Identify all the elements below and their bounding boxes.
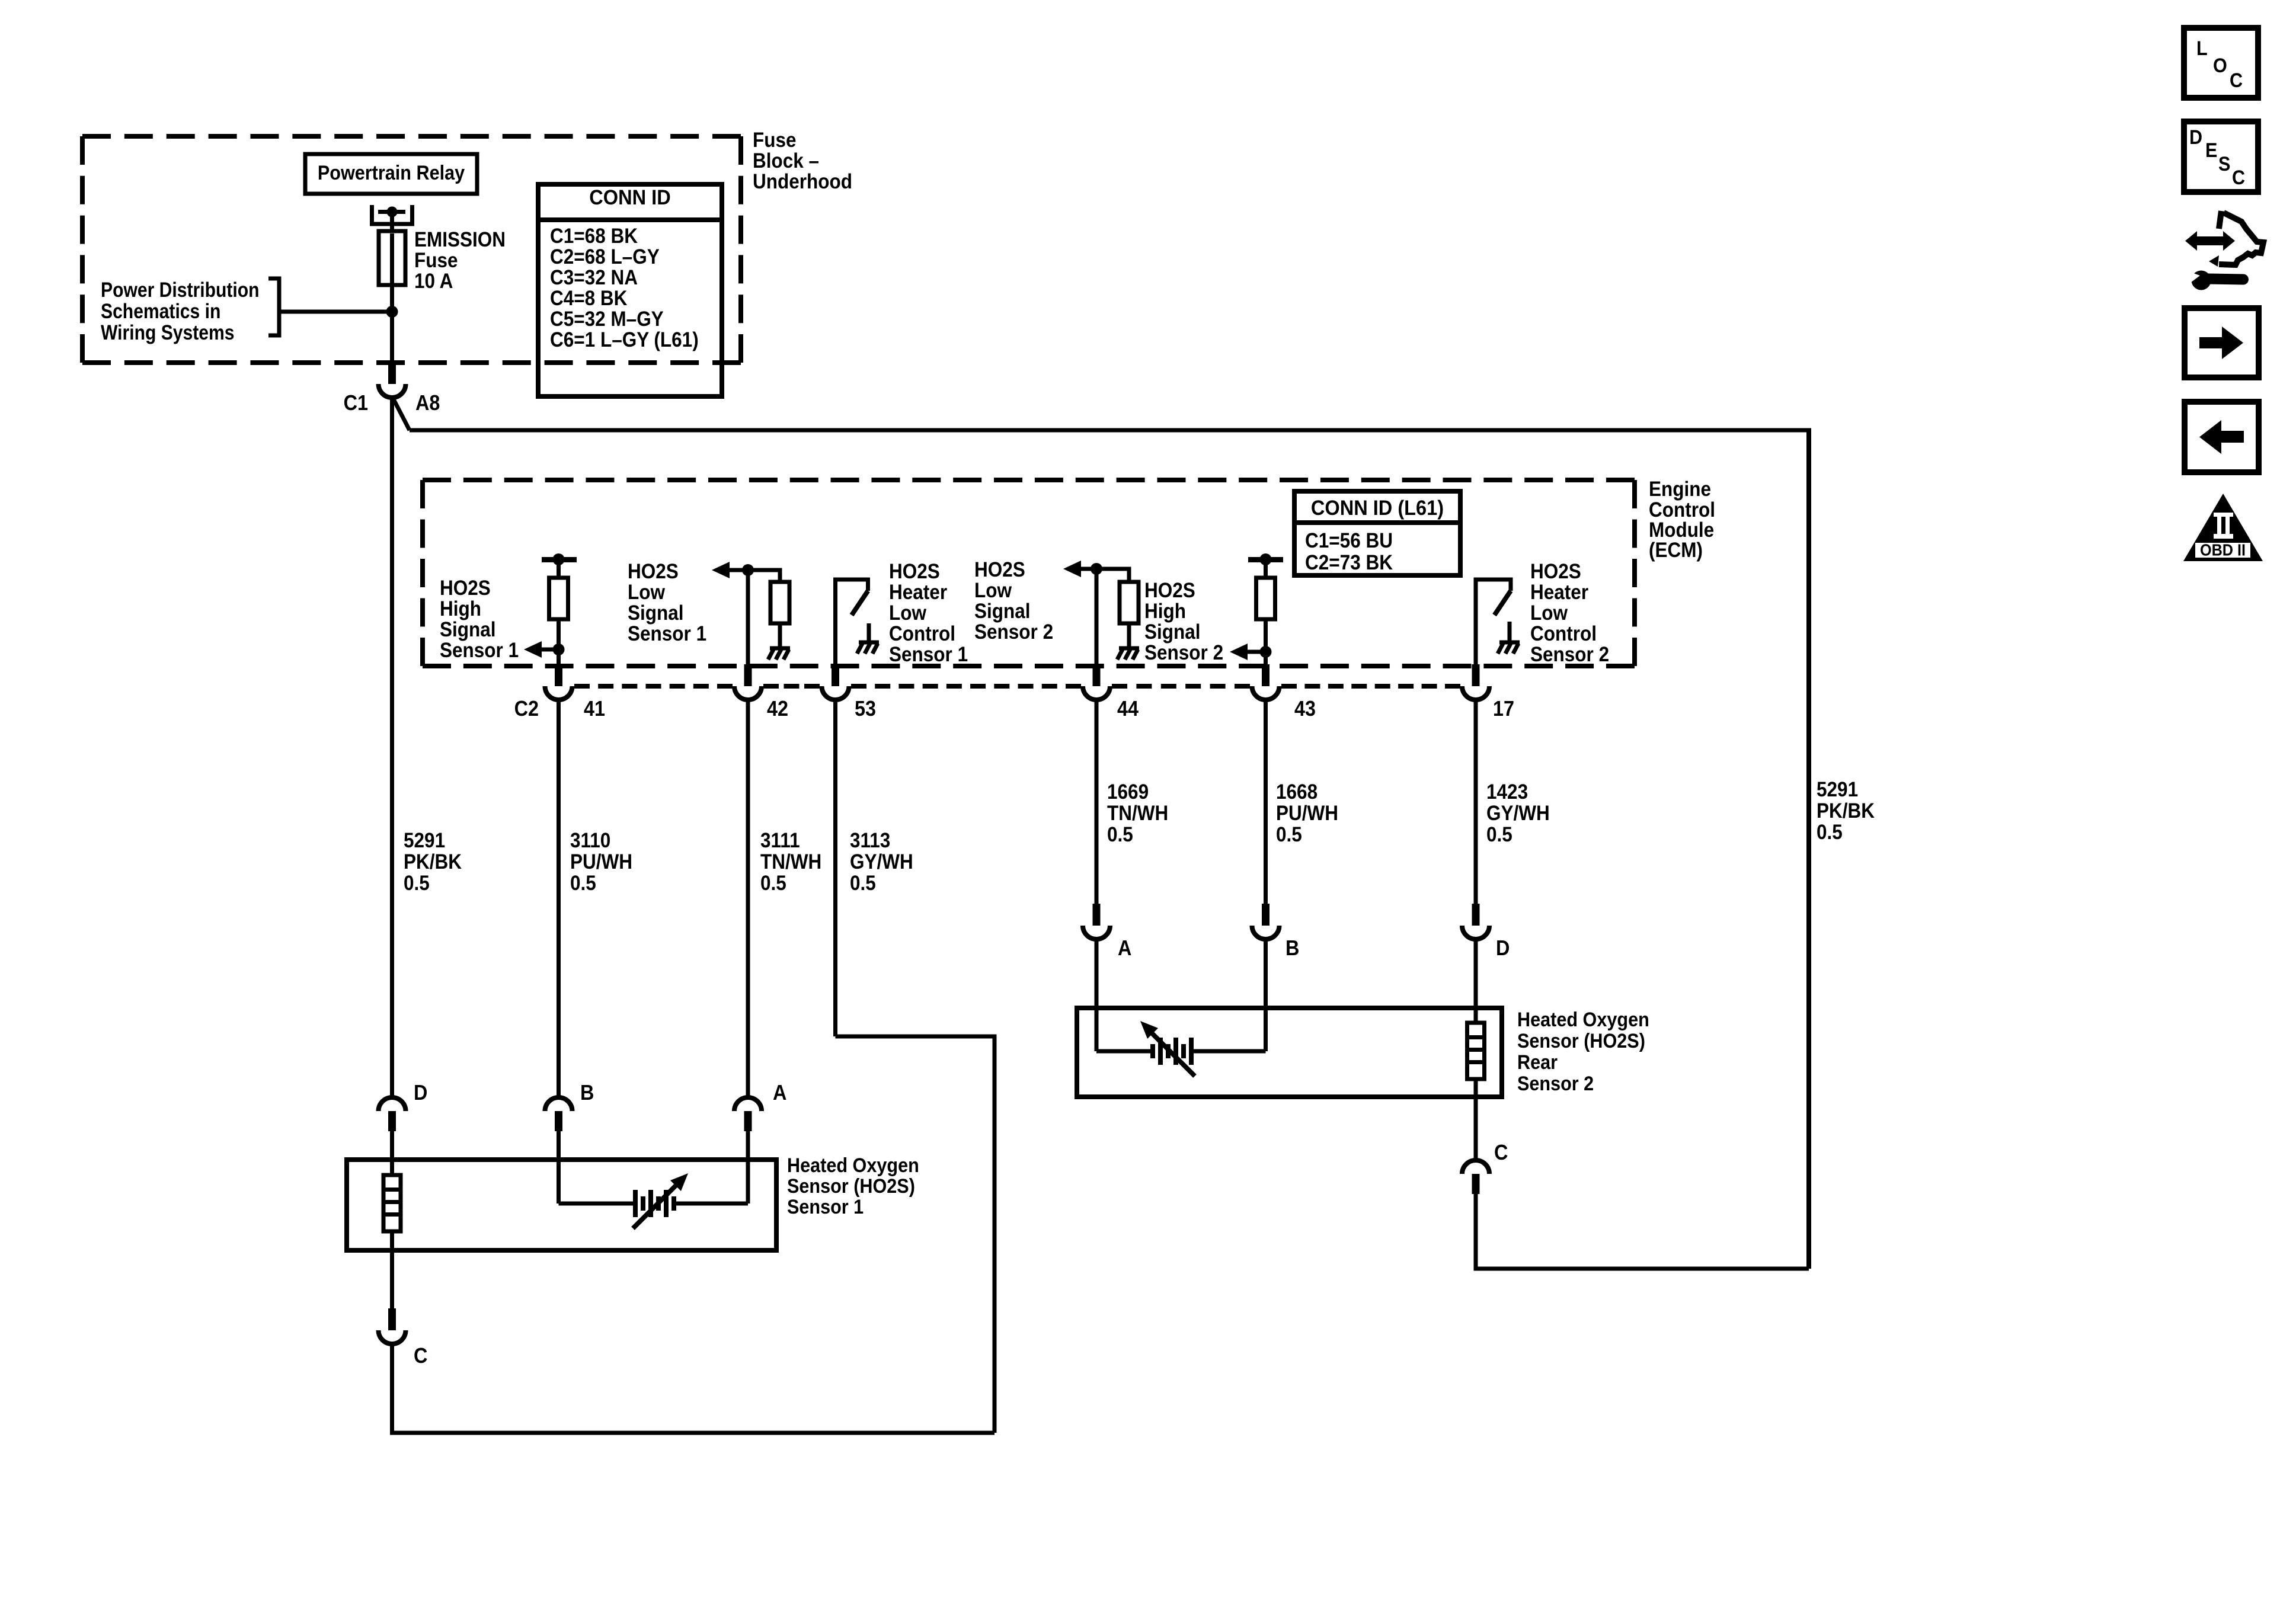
label C2 [514,696,539,721]
label A8 [415,391,440,415]
svg-text:High: High [440,597,481,620]
svg-text:C2: C2 [514,696,539,721]
wire [557,619,561,664]
pin 44 connector [1083,664,1110,700]
wire [1127,623,1131,648]
label: HO2S Low Signal Sensor 2 [974,558,1053,644]
heater bus sensor 2 [1096,1049,1266,1054]
label: 1669 TN/WH 0.5 [1107,780,1168,846]
ground (internal) pin 17 [1498,622,1520,654]
wire to power distribution reference [279,310,392,314]
svg-text:PK/BK: PK/BK [404,850,462,873]
label 42 [767,696,788,721]
arrow HO2S low signal sensor 2 [1063,561,1129,577]
wire 3111 [746,700,750,1097]
icon LOC box [2184,28,2258,98]
fuse F1 EMISSION 10A [379,231,405,285]
wire [557,1131,561,1204]
wire bottom right feed [1476,1267,1809,1271]
wire [833,578,837,665]
label: Power Distribution Schematics in Wiring Systems [101,279,260,344]
svg-text:Sensor 1: Sensor 1 [889,643,968,666]
label: 1668 PU/WH 0.5 [1276,780,1338,846]
svg-text:PU/WH: PU/WH [570,850,632,873]
label B [580,1080,594,1105]
label 17 [1493,696,1514,721]
svg-text:C: C [414,1343,427,1368]
svg-text:Low: Low [1530,601,1568,625]
svg-text:Signal: Signal [974,600,1031,623]
svg-text:5291: 5291 [404,829,445,852]
resistor HO2S low signal 1 [770,582,789,623]
svg-text:D: D [2189,126,2202,149]
svg-text:3110: 3110 [570,829,610,852]
svg-text:0.5: 0.5 [1107,823,1133,846]
label B [1285,936,1299,960]
label C [414,1343,427,1368]
label: 3110 PU/WH 0.5 [570,829,632,895]
svg-text:Block –: Block – [753,149,819,172]
svg-text:Heated Oxygen: Heated Oxygen [1517,1009,1649,1031]
icon OBD II triangle [2183,494,2263,561]
wire 1669 [1095,700,1099,906]
svg-text:PK/BK: PK/BK [1817,799,1875,822]
label: Heated Oxygen Sensor (HO2S) Rear Sensor 2 [1517,1009,1649,1095]
svg-text:Sensor (HO2S): Sensor (HO2S) [787,1175,915,1198]
svg-text:HO2S: HO2S [440,577,491,600]
svg-text:Low: Low [628,581,666,604]
pin 43 internal T junction [1248,553,1283,565]
svg-text:Signal: Signal [440,618,496,641]
label: 1423 GY/WH 0.5 [1486,780,1550,846]
svg-text:Sensor 1: Sensor 1 [787,1196,864,1218]
svg-text:HO2S: HO2S [628,560,679,583]
label 44 [1117,696,1139,721]
connector B sensor 1 [545,1097,573,1131]
pin 17 connector [1462,664,1489,700]
label D [414,1080,427,1105]
wire fuse to C1 connector [390,285,394,363]
label D [1496,936,1510,960]
svg-text:1669: 1669 [1107,780,1149,804]
svg-text:0.5: 0.5 [850,872,876,895]
svg-text:Heater: Heater [1530,581,1588,604]
svg-text:C2=73 BK: C2=73 BK [1305,551,1393,574]
wire [1474,578,1478,665]
wire sensor2 to C [1474,1097,1478,1160]
svg-text:Heater: Heater [889,581,947,604]
wire [1264,619,1268,664]
svg-text:42: 42 [767,696,788,721]
svg-text:Fuse: Fuse [414,249,458,272]
ECM dashed box [423,480,1635,666]
svg-text:Sensor 2: Sensor 2 [974,620,1053,644]
svg-text:Control: Control [889,622,955,645]
svg-text:HO2S: HO2S [1144,579,1195,602]
conn id rows [550,225,699,351]
label A [1118,936,1131,960]
svg-text:Rear: Rear [1517,1051,1558,1074]
svg-text:C: C [1494,1140,1508,1164]
label: EMISSION Fuse 10 A [414,228,506,293]
wire 5291 left vertical [390,398,394,1097]
svg-text:Sensor 1: Sensor 1 [440,639,519,662]
svg-text:C: C [2230,69,2243,92]
svg-text:C2=68 L–GY: C2=68 L–GY [550,245,660,268]
svg-text:Sensor 1: Sensor 1 [628,622,706,645]
svg-text:Fuse: Fuse [753,129,797,152]
svg-text:Power Distribution: Power Distribution [101,279,260,302]
battery (heater supply) sensor 2 [1153,1038,1191,1065]
heater low control driver sensor 2 (switch) [1476,580,1511,615]
wire [1474,1079,1478,1097]
svg-text:3111: 3111 [760,829,800,852]
connector D sensor 1 [379,1097,406,1131]
label: HO2S High Signal Sensor 1 [440,577,519,662]
wire top feed 5291 right [410,428,1809,433]
connector A sensor 2 [1083,904,1110,939]
label C1 [344,391,368,415]
icon schematic/wrench [2185,211,2263,290]
connector D sensor 2 [1462,904,1489,939]
wire [1264,940,1268,1051]
label: CONN ID [589,186,670,209]
ground (internal) pin 44 [1117,648,1139,660]
pin 43 connector [1252,664,1280,700]
wire A8 feed diagonal [392,396,410,430]
svg-text:CONN ID (L61): CONN ID (L61) [1311,497,1444,520]
battery (heater supply) sensor 1 [635,1190,674,1217]
svg-text:10 A: 10 A [414,270,453,293]
label: HO2S Heater Low Control Sensor 2 [1530,560,1609,666]
svg-text:Underhood: Underhood [753,170,852,193]
label 41 [584,696,605,721]
label: HO2S Low Signal Sensor 1 [628,560,706,645]
svg-text:0.5: 0.5 [1276,823,1302,846]
svg-text:Sensor 2: Sensor 2 [1530,643,1609,666]
arrow HO2S high signal sensor 2 [1230,644,1272,660]
wire 3113 [392,700,995,1433]
svg-text:0.5: 0.5 [404,872,430,895]
svg-text:CONN ID: CONN ID [589,186,670,209]
powertrain relay box [305,154,477,194]
label: 5291 PK/BK 0.5 left [404,829,462,895]
junction dot power branch [386,306,398,318]
svg-text:GY/WH: GY/WH [850,850,913,873]
wire 1423 [1474,700,1478,906]
label: 5291 PK/BK 0.5 right [1817,778,1875,844]
svg-text:HO2S: HO2S [1530,560,1581,583]
label: Engine Control Module (ECM) [1649,478,1715,562]
svg-text:A8: A8 [415,391,440,415]
svg-text:Low: Low [974,579,1012,602]
wire relay to fuse [390,214,394,232]
svg-text:0.5: 0.5 [1817,821,1843,844]
svg-text:PU/WH: PU/WH [1276,802,1338,825]
icon back arrow box [2185,402,2259,472]
svg-text:53: 53 [855,696,876,721]
svg-text:Low: Low [889,601,927,625]
svg-text:L: L [2196,37,2208,60]
ground (internal) pin 53 [857,623,879,654]
ground (internal) pin 42 [768,648,790,660]
label: 3113 GY/WH 0.5 [850,829,913,895]
svg-text:C5=32 M–GY: C5=32 M–GY [550,308,664,331]
svg-text:OBD II: OBD II [2200,541,2246,559]
svg-text:E: E [2205,139,2217,162]
label C [1494,1140,1508,1164]
svg-text:D: D [1496,936,1510,960]
svg-text:GY/WH: GY/WH [1486,802,1550,825]
svg-text:C3=32 NA: C3=32 NA [550,266,638,289]
svg-text:0.5: 0.5 [1486,823,1512,846]
wire [778,623,782,648]
svg-text:3113: 3113 [850,829,890,852]
svg-text:1423: 1423 [1486,780,1528,804]
sensor 2 box (HO2S rear sensor 2) [1077,1008,1502,1097]
icon next arrow box [2185,308,2259,377]
label: HO2S Heater Low Control Sensor 1 [889,560,968,666]
arrow HO2S low signal sensor 1 [712,562,780,578]
relay contact K1 [372,205,412,224]
pin 53 connector [822,664,849,700]
wire [557,559,561,578]
label: CONN ID (L61) [1311,497,1444,520]
wire sensor1 to C [390,1250,394,1311]
icon DESC box [2184,121,2258,192]
svg-text:EMISSION: EMISSION [414,228,506,251]
svg-text:17: 17 [1493,696,1514,721]
svg-text:Schematics in: Schematics in [101,300,220,323]
pin 41 connector [545,664,573,700]
svg-text:C4=8 BK: C4=8 BK [550,287,627,310]
label: Heated Oxygen Sensor (HO2S) Sensor 1 [787,1154,919,1218]
arrow HO2S high signal sensor 1 [524,641,565,658]
heater element sensor 1 [383,1175,401,1231]
svg-text:Sensor 2: Sensor 2 [1517,1073,1594,1095]
wire C sensor2 to feed [1474,1193,1478,1271]
wire [746,570,750,664]
resistor HO2S low signal 2 [1120,582,1139,623]
label: Fuse Block - Underhood [753,129,852,193]
variable arrow sensor 2 [1140,1021,1195,1076]
wire [1095,569,1099,664]
svg-text:HO2S: HO2S [889,560,940,583]
conn id L61 rows [1305,529,1393,574]
svg-text:A: A [1118,936,1131,960]
label A [773,1080,786,1105]
conn id table fuse block [538,184,722,396]
svg-text:B: B [580,1080,594,1105]
svg-text:A: A [773,1080,786,1105]
pin 42 connector [734,664,762,700]
svg-text:D: D [414,1080,427,1105]
wire [1264,559,1268,578]
label 53 [855,696,876,721]
wire right feed vertical [1806,428,1811,1269]
svg-text:Control: Control [1530,622,1597,645]
svg-text:Powertrain Relay: Powertrain Relay [318,162,465,184]
svg-text:C1=68 BK: C1=68 BK [550,225,638,248]
conn id (L61) table [1294,491,1460,575]
connector C sensor 2 [1462,1160,1489,1194]
wire 3110 [557,700,561,1097]
svg-text:C1=56 BU: C1=56 BU [1305,529,1393,552]
connector A sensor 1 [734,1097,762,1131]
heater bus sensor 1 [559,1202,749,1206]
resistor HO2S high signal 1 [549,578,568,619]
svg-text:5291: 5291 [1817,778,1858,801]
svg-text:Sensor (HO2S): Sensor (HO2S) [1517,1030,1645,1052]
wire [390,1231,394,1250]
connector C sensor 1 [379,1308,406,1344]
heater low control driver sensor 1 (switch) [836,580,868,615]
svg-text:Engine: Engine [1649,478,1711,501]
svg-text:Sensor 2: Sensor 2 [1144,641,1223,664]
label: HO2S High Signal Sensor 2 [1144,579,1223,664]
power distribution bracket [268,279,279,335]
connector C1/A8 [379,362,406,398]
wire [1095,940,1099,1051]
svg-text:HO2S: HO2S [974,558,1025,581]
wire C to ground loop [390,1344,394,1435]
svg-text:0.5: 0.5 [570,872,596,895]
variable arrow sensor 1 [633,1173,688,1228]
ECM C2 connector dotted line [574,684,1460,689]
wire [1474,940,1478,1023]
sensor 1 box (HO2S sensor 1) [347,1160,776,1250]
wire [1127,567,1131,582]
connector B sensor 2 [1252,904,1280,939]
fuse block underhood dashed box [82,136,741,363]
wire 1668 [1264,700,1268,906]
svg-text:S: S [2218,153,2230,175]
svg-text:41: 41 [584,696,605,721]
wire [778,568,782,582]
pin 41 internal T junction [542,553,577,565]
svg-text:TN/WH: TN/WH [760,850,821,873]
svg-text:B: B [1285,936,1299,960]
svg-text:TN/WH: TN/WH [1107,802,1168,825]
label: Powertrain Relay [318,162,465,184]
svg-text:C: C [2232,167,2245,189]
svg-text:Signal: Signal [1144,620,1201,644]
wire [746,1131,750,1204]
svg-text:Signal: Signal [628,601,684,625]
svg-text:C6=1 L–GY (L61): C6=1 L–GY (L61) [550,328,699,351]
svg-text:44: 44 [1117,696,1139,721]
svg-text:C1: C1 [344,391,368,415]
svg-text:Heated Oxygen: Heated Oxygen [787,1154,919,1177]
svg-text:Wiring Systems: Wiring Systems [101,321,235,344]
label 43 [1294,696,1316,721]
svg-text:43: 43 [1294,696,1316,721]
heater element sensor 2 [1467,1023,1485,1079]
svg-text:High: High [1144,600,1186,623]
resistor HO2S high signal 2 [1256,578,1275,619]
label: 3111 TN/WH 0.5 [760,829,821,895]
wire [390,1131,394,1175]
svg-text:0.5: 0.5 [760,872,786,895]
svg-text:(ECM): (ECM) [1649,539,1703,562]
svg-text:1668: 1668 [1276,780,1318,804]
svg-text:O: O [2213,55,2227,77]
